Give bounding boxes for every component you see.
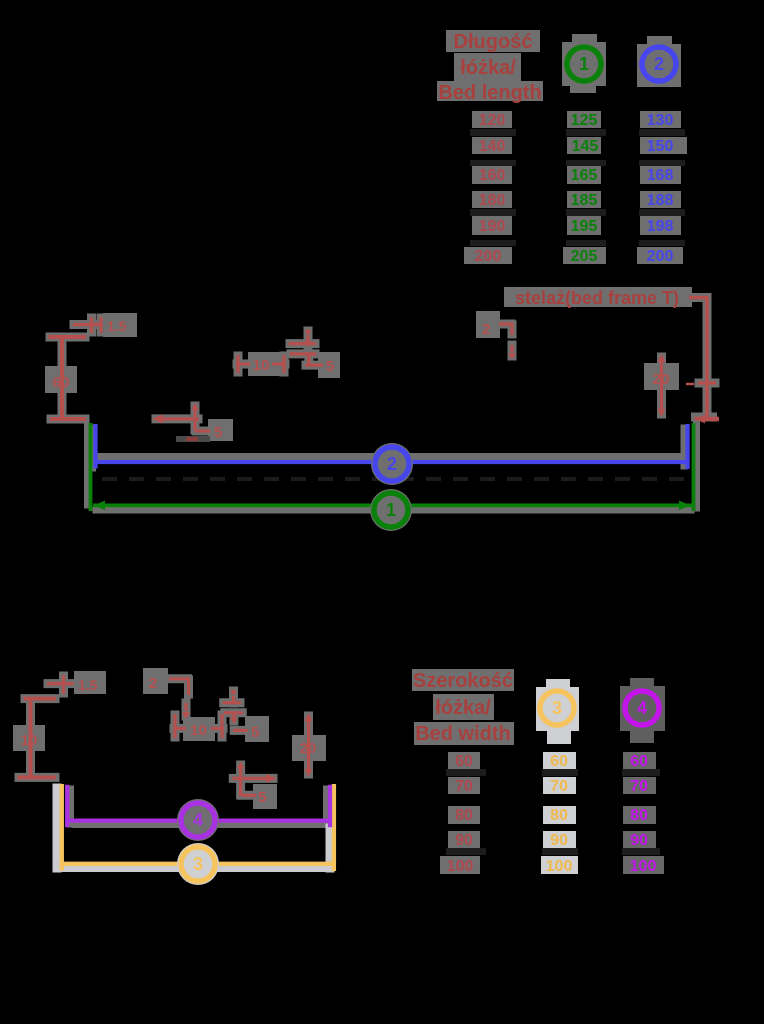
table 2 gold column numbers — [546, 753, 573, 875]
svg-text:1.5: 1.5 — [107, 318, 127, 334]
svg-text:168: 168 — [647, 167, 674, 184]
svg-text:1: 1 — [579, 54, 589, 74]
svg-text:2: 2 — [654, 54, 664, 74]
table 2 gold column boxes (silver) — [541, 752, 578, 874]
svg-text:150: 150 — [647, 138, 674, 155]
table 1 blue column boxes — [637, 111, 687, 264]
svg-text:145: 145 — [572, 138, 599, 155]
faint remnant strips table 2 — [446, 769, 660, 855]
svg-text:3: 3 — [552, 698, 562, 718]
svg-text:180: 180 — [479, 192, 506, 209]
svg-text:łóżka/: łóżka/ — [435, 697, 491, 719]
svg-text:5: 5 — [251, 724, 259, 741]
drawing 2: middle bracket cluster with label 5 — [223, 690, 248, 730]
node 2 (blue circle, table 1 col header) — [637, 36, 681, 87]
svg-text:5: 5 — [258, 789, 266, 806]
svg-text:198: 198 — [647, 218, 674, 235]
svg-text:Bed width: Bed width — [415, 723, 511, 745]
wire rail 2 (blue) of drawing 1 — [96, 424, 689, 469]
drawing 1: middle bracket cluster with label 5 — [289, 330, 323, 366]
rail halos drawing 2: silver for gold, gray for purple — [71, 789, 327, 825]
node 1 (green circle on rail) — [370, 489, 412, 531]
svg-text:4: 4 — [637, 698, 647, 718]
table 2 header boxes — [412, 669, 514, 745]
svg-text:5: 5 — [214, 424, 222, 441]
svg-text:125: 125 — [571, 112, 598, 129]
drawing 1: left frame member with label 60 — [49, 337, 87, 419]
table 1 blue column numbers — [647, 112, 674, 265]
svg-text:165: 165 — [571, 167, 598, 184]
node 4 (purple circle on rail) — [177, 799, 219, 841]
wire rail 3 (gold) of drawing 2 — [62, 784, 334, 871]
table 1 red column boxes — [464, 111, 512, 264]
svg-text:120: 120 — [479, 112, 506, 129]
svg-text:60: 60 — [550, 753, 568, 770]
drawing 2: dimension 20 (right, vertical with arrows) — [305, 713, 313, 777]
svg-text:100: 100 — [447, 858, 474, 875]
svg-text:stelaż(bed frame T): stelaż(bed frame T) — [515, 288, 679, 308]
drawing 2: dimension 1.5 (top left) — [47, 675, 74, 694]
faint remnant strips table 1 — [470, 129, 685, 246]
svg-text:Bed length: Bed length — [438, 82, 541, 104]
svg-text:1: 1 — [386, 500, 396, 520]
svg-text:10: 10 — [253, 357, 270, 374]
node 1 (green circle, table 1 col header) — [562, 34, 606, 93]
drawing 2: dimension 10 (middle) — [173, 714, 224, 738]
label boxes drawing 1 — [45, 287, 692, 441]
svg-text:20: 20 — [653, 371, 670, 388]
svg-text:200: 200 — [475, 248, 502, 265]
table 1 green column numbers — [571, 112, 599, 265]
table 1 header boxes — [437, 30, 543, 101]
node 3 (gold circle on rail) — [177, 843, 219, 885]
table 2 magenta column boxes — [623, 752, 664, 874]
svg-text:5: 5 — [326, 358, 334, 375]
svg-text:140: 140 — [479, 138, 506, 155]
svg-text:Szerokość: Szerokość — [413, 670, 513, 692]
svg-text:2: 2 — [387, 454, 397, 474]
svg-text:60: 60 — [53, 374, 70, 391]
table 2 red column numbers — [447, 753, 474, 875]
svg-text:90: 90 — [455, 832, 473, 849]
drawing 1: right frame member T — [686, 298, 719, 424]
node 2 (blue circle on rail) — [371, 443, 413, 485]
table 1 green column boxes — [563, 111, 606, 264]
svg-text:200: 200 — [647, 248, 674, 265]
table 1 header text: Dlugosc lozka / Bed length — [438, 31, 541, 104]
drawing 1: dimension 1.5 (top left) — [73, 317, 103, 333]
node 4 (magenta circle, table 2 col header) — [620, 678, 665, 743]
svg-text:160: 160 — [479, 167, 506, 184]
wire rail 4 (purple) of drawing 2 — [67, 785, 330, 828]
svg-text:130: 130 — [647, 112, 674, 129]
svg-text:185: 185 — [571, 192, 598, 209]
drawing 2: leader dimension 5 (lower middle) — [232, 762, 277, 797]
table 2 magenta column numbers — [630, 753, 657, 875]
drawing 2: left frame member with label 10 — [18, 699, 57, 778]
svg-text:60: 60 — [630, 753, 648, 770]
svg-text:10: 10 — [21, 732, 38, 749]
svg-text:188: 188 — [647, 192, 674, 209]
table 2 header text: Szerokosc lozka / Bed width — [413, 670, 513, 745]
svg-text:łóżka/: łóżka/ — [460, 57, 516, 79]
svg-text:100: 100 — [630, 858, 657, 875]
svg-text:70: 70 — [630, 778, 648, 795]
svg-text:2: 2 — [149, 675, 157, 692]
remnant mark above blue rail — [176, 436, 210, 442]
gray halos for red strokes — [50, 298, 715, 432]
label boxes drawing 2 — [13, 668, 326, 809]
svg-text:100: 100 — [546, 858, 573, 875]
svg-text:80: 80 — [550, 807, 568, 824]
svg-text:20: 20 — [300, 740, 317, 757]
table 2 red column boxes — [440, 752, 480, 874]
wire rail 1 (green) of drawing 1 — [91, 423, 695, 511]
svg-text:90: 90 — [550, 832, 568, 849]
node 3 (gold circle, table 2 col header) — [536, 679, 579, 744]
svg-text:2: 2 — [482, 321, 490, 338]
drawing 1: dimension 20 (right, vertical with arrows) — [658, 354, 666, 417]
drawing 1: leader dimension 5 (lower left) — [152, 403, 210, 431]
table 1 red column numbers — [475, 112, 506, 265]
svg-text:Długość: Długość — [454, 31, 533, 53]
svg-text:80: 80 — [630, 807, 648, 824]
svg-text:1.5: 1.5 — [78, 677, 98, 693]
svg-text:195: 195 — [571, 218, 598, 235]
rail halos drawing 1 — [88, 424, 697, 510]
svg-text:10: 10 — [190, 722, 207, 739]
svg-text:3: 3 — [193, 854, 203, 874]
dashed remnant line between rails — [102, 477, 686, 481]
drawing 1: dimension 10 (middle) — [236, 355, 286, 373]
svg-text:4: 4 — [193, 810, 203, 830]
gray halos for red strokes drawing 2 — [19, 676, 309, 795]
svg-text:90: 90 — [630, 832, 648, 849]
svg-text:190: 190 — [479, 218, 506, 235]
svg-text:80: 80 — [455, 807, 473, 824]
svg-text:70: 70 — [550, 778, 568, 795]
svg-text:205: 205 — [571, 248, 598, 265]
svg-text:60: 60 — [455, 753, 473, 770]
svg-text:70: 70 — [455, 778, 473, 795]
